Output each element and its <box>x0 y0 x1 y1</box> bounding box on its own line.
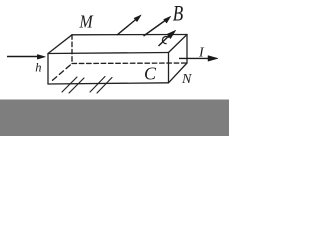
svg-text:M: M <box>79 12 94 32</box>
svg-text:N: N <box>181 72 192 87</box>
svg-text:C: C <box>144 64 157 84</box>
svg-text:B: B <box>173 1 183 26</box>
svg-text:h: h <box>35 60 41 74</box>
